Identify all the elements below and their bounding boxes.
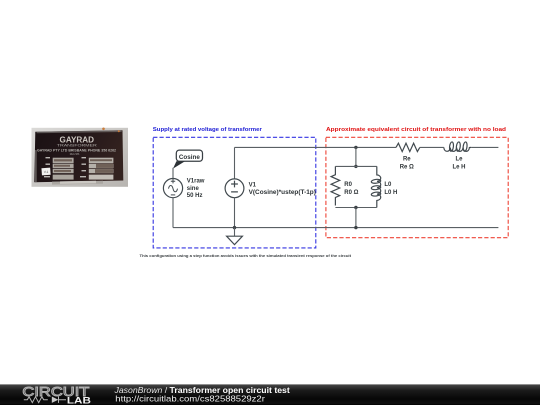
wire: V1 top vertical — [234, 147, 236, 179]
wire: bottom rail — [173, 227, 498, 229]
wire: parallel bottom rail — [335, 207, 376, 209]
svg-text:V.1: V.1 — [44, 170, 49, 174]
svg-text:L0L0 H: L0L0 H — [384, 182, 397, 196]
svg-text:This configuration using a ste: This configuration using a step function… — [140, 254, 352, 258]
inductor Le — [444, 142, 471, 152]
voltage source V1 — [225, 179, 244, 198]
svg-text:GAYRAD PTY LTD BRISBANE PHONE: GAYRAD PTY LTD BRISBANE PHONE 356 6262 — [37, 148, 116, 152]
svg-text:R0R0 Ω: R0R0 Ω — [344, 182, 358, 196]
photo: transformer nameplate — [32, 128, 129, 187]
logo resistor-diode glyph — [24, 397, 66, 403]
wire: V1raw bottom to rail — [172, 198, 174, 228]
svg-text:LeLe H: LeLe H — [452, 156, 465, 170]
svg-text:V1V(Cosine)*ustep(T-1p): V1V(Cosine)*ustep(T-1p) — [249, 182, 316, 195]
wire: node column bottom — [355, 208, 357, 228]
junction dot at V1 bottom — [233, 226, 236, 229]
resistor Re — [396, 143, 420, 151]
blue dashed box: supply at rated voltage — [153, 137, 316, 248]
wire: parallel top rail — [335, 165, 376, 167]
svg-text:LAB: LAB — [67, 396, 91, 405]
footer bar — [0, 384, 540, 405]
wire: node column top — [355, 147, 357, 166]
svg-text:Approximate equivalent circuit: Approximate equivalent circuit of transf… — [326, 127, 506, 133]
svg-text:REG 586: REG 586 — [70, 152, 80, 156]
junction dot: bottom rail node — [354, 226, 357, 229]
red dashed box: equivalent circuit — [326, 137, 508, 237]
svg-text:Supply at rated voltage of tra: Supply at rated voltage of transformer — [153, 127, 263, 133]
wire: V1 bottom to rail — [234, 198, 236, 228]
wire: top rail segment 2 — [420, 146, 444, 148]
junction dot: parallel bottom — [354, 206, 357, 209]
svg-text:TRANSFORMER: TRANSFORMER — [57, 143, 98, 147]
svg-text:Cosine: Cosine — [179, 155, 201, 161]
ground — [227, 228, 243, 245]
wire: Cosine node stub — [172, 168, 174, 179]
inductor L0 — [371, 166, 381, 207]
node label Cosine — [173, 150, 203, 169]
resistor R0 — [331, 166, 340, 205]
junction dot: top rail node — [354, 146, 357, 149]
junction dot: parallel top — [354, 165, 357, 168]
voltage source V1raw — [163, 179, 182, 198]
wire: top rail segment 1 — [235, 146, 397, 148]
svg-text:http://circuitlab.com/cs825885: http://circuitlab.com/cs82588529z2r — [115, 394, 265, 404]
svg-text:ReRe Ω: ReRe Ω — [400, 156, 414, 170]
wire: top rail segment 3 — [471, 146, 498, 148]
svg-text:V1rawsine50 Hz: V1rawsine50 Hz — [187, 178, 205, 199]
